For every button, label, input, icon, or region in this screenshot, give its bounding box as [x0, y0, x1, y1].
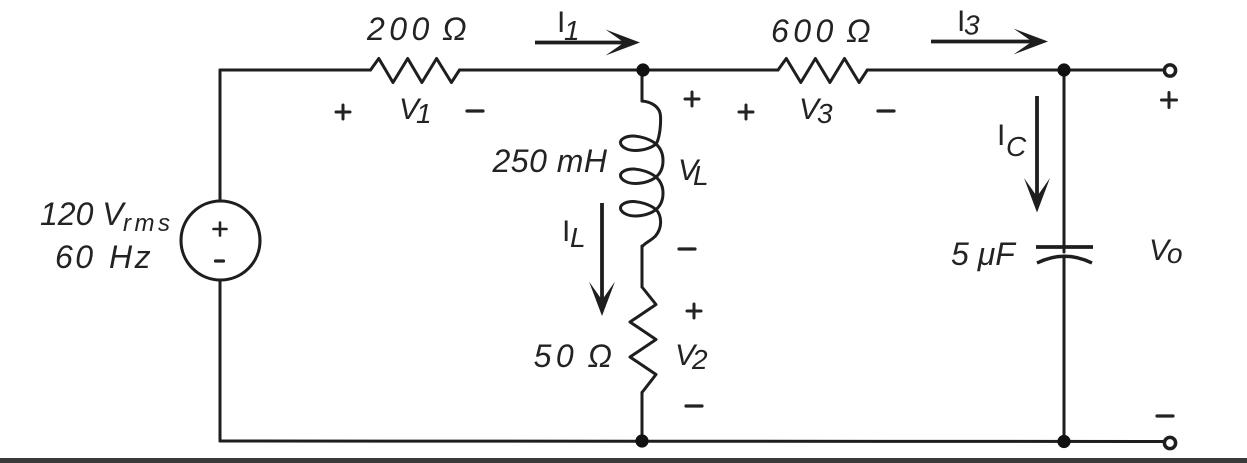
svg-text:50 Ω: 50 Ω [534, 338, 617, 374]
label VL minus sign [679, 247, 695, 250]
wire left vertical top (source to top-left corner) [219, 70, 222, 201]
svg-text:600 Ω: 600 Ω [771, 13, 875, 49]
svg-text:1: 1 [416, 98, 432, 129]
svg-text:60 Hz: 60 Hz [55, 239, 153, 275]
label V2 plus sign [687, 304, 701, 318]
current arrow I3 [931, 29, 1048, 55]
label Vo minus sign [1157, 414, 1173, 417]
svg-text:2: 2 [691, 344, 708, 375]
label V1 minus sign [467, 109, 483, 112]
wire R2 to bottom rail [641, 393, 644, 442]
wire capacitor to bottom rail [1063, 256, 1066, 441]
node A junction dot [636, 63, 649, 76]
svg-text:120 V: 120 V [40, 196, 126, 232]
svg-text:3: 3 [817, 98, 833, 129]
node B junction dot [1057, 63, 1070, 76]
svg-text:L: L [570, 222, 586, 253]
wire left vertical bottom (source to bottom-left corner) [219, 281, 222, 442]
node bottom-right junction dot [1057, 435, 1070, 448]
wire node A down to inductor [641, 70, 644, 101]
current arrow IC [1024, 96, 1050, 213]
svg-text:I: I [997, 119, 1005, 152]
voltage source minus sign [216, 259, 224, 262]
wire top from corner to R1 [220, 69, 371, 72]
resistor R3 600 ohm zigzag [778, 59, 867, 83]
resistor R1 200 ohm zigzag [371, 59, 460, 83]
wire inductor to R2 [641, 246, 644, 287]
current arrow I1 [535, 30, 640, 56]
current arrow IL [589, 203, 615, 316]
terminal bottom-right open circle [1164, 437, 1175, 448]
svg-text:1: 1 [564, 15, 580, 46]
wire R1 to node A [460, 69, 779, 72]
svg-text:250 mH: 250 mH [491, 143, 607, 179]
svg-text:o: o [1167, 238, 1183, 269]
svg-text:3: 3 [964, 10, 980, 41]
voltage source plus sign [214, 223, 227, 236]
svg-text:L: L [693, 160, 709, 191]
inductor L 250 mH coil [621, 101, 664, 247]
label V3 plus sign [739, 105, 753, 119]
wire bottom rail [220, 440, 1163, 444]
terminal top-right open circle [1164, 65, 1175, 76]
label V2 minus sign [686, 404, 702, 407]
capacitor C top plate [1036, 245, 1093, 249]
label V1 plus sign [336, 105, 350, 119]
label VL plus sign [685, 92, 699, 106]
svg-text:rms: rms [123, 210, 173, 237]
svg-text:5 μF: 5 μF [951, 236, 1017, 272]
node bottom-middle junction dot [635, 434, 648, 447]
voltage source VS circle [181, 201, 260, 280]
label Vo plus sign [1162, 93, 1177, 108]
wire R3 to node B and top-right terminal [867, 69, 1163, 72]
label V3 minus sign [878, 109, 894, 112]
svg-text:C: C [1006, 131, 1027, 162]
svg-text:200 Ω: 200 Ω [366, 11, 471, 47]
resistor R2 50 ohm zigzag [630, 287, 656, 393]
wire node B down to capacitor [1063, 70, 1066, 252]
capacitor C bottom curved plate [1037, 256, 1092, 263]
